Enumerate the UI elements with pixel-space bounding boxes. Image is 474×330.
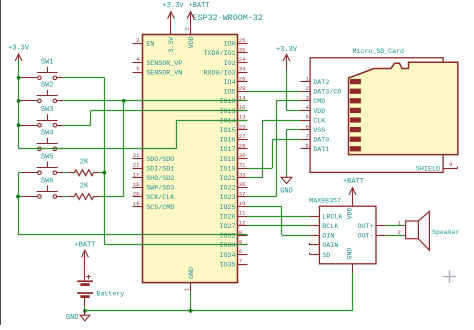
svg-text:CMD: CMD <box>313 98 325 106</box>
battery BT1 <box>77 262 124 307</box>
svg-text:31: 31 <box>239 162 246 169</box>
svg-text:3.3V: 3.3V <box>168 37 176 53</box>
ESP32 right pin 16 IO13 <box>220 104 248 116</box>
svg-text:DAT1: DAT1 <box>313 146 329 154</box>
MAX98357 pin DIN <box>310 233 335 241</box>
SD card drawing <box>349 62 458 154</box>
switch SW3 <box>20 106 63 127</box>
svg-text:IO33: IO33 <box>220 242 236 250</box>
svg-text:SCS/CMD: SCS/CMD <box>146 204 174 212</box>
SD pin 3 CMD <box>301 95 326 107</box>
wire IO5 to DAT3/CD <box>248 91 301 93</box>
svg-text:OUT+: OUT+ <box>357 223 373 231</box>
pin 2 VDD (top) <box>190 25 192 35</box>
junction on rail at SW3 <box>17 123 21 127</box>
svg-text:11: 11 <box>239 210 246 217</box>
svg-text:Micro_SD_Card: Micro_SD_Card <box>353 48 404 55</box>
svg-text:IO26: IO26 <box>220 213 236 221</box>
svg-text:+BATT: +BATT <box>188 2 209 10</box>
svg-text:25: 25 <box>239 37 246 44</box>
wire VDD row <box>287 110 301 112</box>
MAX98357 GND pin <box>352 264 354 274</box>
svg-text:35: 35 <box>239 47 246 54</box>
svg-text:2K: 2K <box>80 183 89 191</box>
svg-text:6: 6 <box>306 123 309 130</box>
svg-text:DAT0: DAT0 <box>313 137 329 145</box>
SD pad 7 <box>350 137 361 142</box>
svg-text:IO27: IO27 <box>220 223 236 231</box>
SD pin 6 VSS <box>301 123 326 135</box>
svg-text:RXD0/IO3: RXD0/IO3 <box>203 69 235 77</box>
svg-text:IO2: IO2 <box>224 60 236 68</box>
ESP32 right pin 31 IO19 <box>220 162 248 174</box>
power symbol +3.3V at SD <box>286 55 288 69</box>
wire IO14 row to pin <box>177 120 248 122</box>
ESP32 right pin 33 IO21 <box>220 171 248 183</box>
wire IO23 row to pin <box>248 196 277 198</box>
svg-text:LRCLK: LRCLK <box>322 213 342 221</box>
svg-text:17: 17 <box>133 171 140 178</box>
svg-text:18: 18 <box>133 181 140 188</box>
svg-text:37: 37 <box>239 191 246 198</box>
wire SW5/SW6 common column <box>18 173 20 235</box>
wire bend down to DIN row <box>281 206 283 235</box>
svg-text:IO22: IO22 <box>220 185 236 193</box>
ESP32 right pin 23 IO15 <box>220 123 248 135</box>
MAX98357 pin SD <box>310 252 331 260</box>
junction on rail at SW2 <box>17 99 21 103</box>
svg-text:20: 20 <box>133 191 140 198</box>
MAX98357 pin OUT- <box>357 233 385 241</box>
wire VSS row <box>287 129 301 131</box>
wire IO19 row to pin <box>248 168 273 170</box>
wire SW5 row stub from column <box>18 172 22 174</box>
ESP32 right pin 11 IO26 <box>220 210 248 222</box>
svg-text:24: 24 <box>239 56 246 63</box>
SD pad 5 <box>350 117 361 122</box>
wire SW4 row (rail corner to inside chip) <box>19 148 177 150</box>
svg-text:GND: GND <box>346 248 354 260</box>
ESP32 left pin 22 SDI/SD1 <box>133 162 175 174</box>
wire DIN row to pin <box>282 235 310 237</box>
wire SW2 row to IO12 pin (across chip) <box>63 100 247 102</box>
svg-text:DAT2: DAT2 <box>313 79 329 87</box>
MAX98357 pin GAIN <box>310 242 339 250</box>
svg-text:SHIELD: SHIELD <box>416 165 440 173</box>
switch SW4 <box>20 130 63 151</box>
SD pin 5 CLK <box>301 114 326 126</box>
svg-text:22: 22 <box>133 162 140 169</box>
svg-text:GAIN: GAIN <box>322 242 338 250</box>
svg-text:28: 28 <box>239 143 246 150</box>
svg-text:7: 7 <box>239 258 242 265</box>
svg-text:5: 5 <box>306 114 309 121</box>
svg-text:29: 29 <box>239 85 246 92</box>
wire R2 row to column <box>99 196 123 198</box>
svg-text:SENSOR_VP: SENSOR_VP <box>146 60 182 68</box>
ESP32 right pin 25 IO0 <box>224 37 248 49</box>
wire CLK row to column <box>263 120 301 122</box>
switch SW5 <box>20 154 63 175</box>
MAX98357 pin LRCLK <box>310 213 343 221</box>
svg-text:IO15: IO15 <box>220 127 236 135</box>
svg-text:36: 36 <box>239 181 246 188</box>
ESP32 left pin 18 SWP/SD3 <box>133 181 175 193</box>
svg-text:2: 2 <box>398 229 401 236</box>
svg-text:IO16: IO16 <box>220 137 236 145</box>
svg-text:SWP/SD3: SWP/SD3 <box>146 185 174 193</box>
svg-text:+3.3V: +3.3V <box>276 46 298 54</box>
svg-text:GND: GND <box>280 188 293 196</box>
switch SW6 <box>20 177 63 198</box>
ESP32 right pin 10 IO25 <box>220 200 248 212</box>
svg-text:CLK: CLK <box>313 117 325 125</box>
SD pad 2 <box>350 89 361 94</box>
svg-text:Battery: Battery <box>97 290 125 297</box>
svg-text:IO4: IO4 <box>224 79 236 87</box>
resistor R2 2K <box>69 183 100 200</box>
svg-text:VDD: VDD <box>188 36 196 48</box>
ESP32 right pin 30 IO18 <box>220 152 248 164</box>
ESP32 right pin 9 IO33 <box>220 239 248 251</box>
ESP32 right pin 28 IO17 <box>220 143 248 155</box>
svg-text:VDD: VDD <box>346 207 354 219</box>
svg-text:2: 2 <box>184 27 191 30</box>
ESP32 left pin 20 SCK/CLK <box>133 191 175 203</box>
wire battery to ground rail <box>84 307 86 311</box>
svg-text:IO35: IO35 <box>220 261 236 269</box>
svg-text:VSS: VSS <box>313 127 325 135</box>
svg-text:SW3: SW3 <box>41 106 54 114</box>
svg-text:VDD: VDD <box>313 108 325 116</box>
svg-text:Speaker: Speaker <box>432 229 460 236</box>
power symbol +BATT at MAX <box>352 188 354 196</box>
ESP32 left pin 4 SENSOR_VP <box>133 56 183 68</box>
ESP32 right pin 29 IO5 <box>224 85 248 97</box>
ESP32 right pin 8 IO32 <box>220 229 248 241</box>
svg-text:10: 10 <box>239 200 246 207</box>
ESP32 module U1 body <box>143 35 238 283</box>
SD pin 8 DAT1 <box>301 143 330 155</box>
ESP32 left pin 21 SDO/SDO <box>133 152 175 164</box>
wire IO21 row to pin <box>248 177 263 179</box>
ground symbol at SD <box>286 175 288 177</box>
svg-text:IO25: IO25 <box>220 204 236 212</box>
wire R1 to junction <box>99 172 104 174</box>
svg-text:BCLK: BCLK <box>322 223 338 231</box>
svg-text:23: 23 <box>239 123 246 130</box>
MAX98357 pin BCLK <box>310 223 339 231</box>
wire column down to R2 row <box>123 101 125 197</box>
svg-text:SW4: SW4 <box>41 130 54 138</box>
speaker LS1 <box>406 211 460 250</box>
wire up inside chip to IO14 row <box>176 120 178 149</box>
ESP32 right pin 13 IO14 <box>220 114 248 126</box>
svg-text:IO14: IO14 <box>220 117 236 125</box>
svg-text:SDI/SD1: SDI/SD1 <box>146 165 174 173</box>
junction ESP32 GND at rail <box>189 309 193 313</box>
svg-text:7: 7 <box>306 133 309 140</box>
svg-text:+BATT: +BATT <box>74 242 95 250</box>
wire +3.3V rail <box>18 60 20 149</box>
svg-text:3: 3 <box>136 37 139 44</box>
ESP32 left pin 5 SENSOR_VN <box>133 66 183 78</box>
svg-text:IO32: IO32 <box>220 233 236 241</box>
junction on rail at SW1 <box>17 76 21 80</box>
svg-text:2K: 2K <box>80 159 89 167</box>
power symbol +BATT at battery <box>84 251 86 262</box>
power symbol +BATT at ESP32 <box>190 12 192 25</box>
svg-text:27: 27 <box>239 133 246 140</box>
svg-text:SDO/SDO: SDO/SDO <box>146 156 174 164</box>
svg-text:DIN: DIN <box>322 233 334 241</box>
wire VSS down to ground <box>286 130 288 176</box>
svg-text:+3.3V: +3.3V <box>8 44 30 52</box>
svg-text:DAT3/CD: DAT3/CD <box>313 89 341 97</box>
wire +3.3V down to VDD <box>286 69 288 110</box>
svg-text:SW2: SW2 <box>41 82 54 90</box>
ESP32 right pin 37 IO23 <box>220 191 248 203</box>
wire IO13 row to pin (across chip) <box>91 110 248 112</box>
svg-text:IO0: IO0 <box>224 41 236 49</box>
MAX98357 pin OUT+ <box>357 223 385 231</box>
svg-text:3: 3 <box>306 95 309 102</box>
resistor R1 2K <box>69 159 100 176</box>
ESP32 right pin 36 IO22 <box>220 181 248 193</box>
SD pin 1 DAT2 <box>301 75 330 87</box>
wire IO25 to bend <box>248 206 282 208</box>
SD pin 9 SHIELD <box>416 161 458 173</box>
wire common column to IO32 (row across chip) <box>18 234 248 236</box>
SD pad 6 <box>350 127 361 132</box>
svg-text:IO13: IO13 <box>220 108 236 116</box>
power symbol +3.3V left <box>18 55 20 60</box>
ESP32 right pin 34 RXD0/IO3 <box>203 66 247 78</box>
wire DAT0 row to column <box>272 139 300 141</box>
power symbol +3.3V at ESP32 <box>170 12 172 25</box>
junction at SW6 on common column <box>16 195 20 199</box>
wire CMD row to column <box>276 100 300 102</box>
svg-text:26: 26 <box>239 75 246 82</box>
wire SW1 column down to IO33 row <box>104 78 106 245</box>
svg-text:SW1: SW1 <box>41 59 54 67</box>
wire CMD column down to IO23 row <box>276 101 278 197</box>
wire SW5 to R1 <box>63 172 68 174</box>
switch SW1 <box>20 59 63 80</box>
svg-text:8: 8 <box>306 143 309 150</box>
wire DAT0 column down to IO19 row <box>272 139 274 168</box>
window edge <box>0 0 2 325</box>
svg-text:19: 19 <box>133 200 140 207</box>
svg-text:OUT-: OUT- <box>357 233 373 241</box>
svg-text:IO17: IO17 <box>220 146 236 154</box>
svg-text:MAX98357: MAX98357 <box>309 197 341 204</box>
svg-text:6: 6 <box>239 248 242 255</box>
cursor crosshair <box>443 276 456 278</box>
svg-text:2: 2 <box>306 85 309 92</box>
svg-text:12: 12 <box>239 219 246 226</box>
junction battery at ground rail <box>83 309 87 313</box>
svg-text:ESP32-WROOM-32: ESP32-WROOM-32 <box>193 13 263 23</box>
ESP32 right pin 26 IO4 <box>224 75 248 87</box>
ESP32 left pin 17 SHD/SD2 <box>133 171 175 183</box>
SD pad 3 <box>350 98 361 103</box>
ground symbol at battery <box>84 311 86 315</box>
wire SW6 row stub from column <box>18 196 22 198</box>
ESP32 right pin 6 IO34 <box>220 248 248 260</box>
svg-text:+3.3V: +3.3V <box>162 2 184 10</box>
svg-text:EN: EN <box>146 41 154 49</box>
pin 3V3 (top) <box>170 25 172 35</box>
MAX98357 VDD pin to +BATT <box>352 196 354 206</box>
SD pad 4 <box>350 108 361 113</box>
wire IO27 to BCLK <box>248 225 310 227</box>
wire SW3 bend up to IO13 row <box>90 110 92 125</box>
svg-text:IO23: IO23 <box>220 194 236 202</box>
ESP32 left pin 19 SCS/CMD <box>133 200 175 212</box>
SD pin 4 VDD <box>301 104 326 116</box>
svg-text:IO5: IO5 <box>224 89 236 97</box>
ground rail wire <box>85 310 353 312</box>
svg-text:TXD0/IO1: TXD0/IO1 <box>203 50 235 58</box>
wire MAX GND to rail <box>352 273 354 311</box>
svg-text:9: 9 <box>449 161 452 168</box>
wire SW6 to R2 <box>63 196 68 198</box>
svg-text:SW5: SW5 <box>41 154 54 162</box>
SD pad 1 <box>350 79 361 84</box>
ESP32 right pin 27 IO16 <box>220 133 248 145</box>
wire OUT+ to speaker pin 1 <box>386 225 406 227</box>
pin 1 GND (bottom) <box>190 283 192 293</box>
svg-text:IO34: IO34 <box>220 252 236 260</box>
svg-text:IO12: IO12 <box>220 98 236 106</box>
SD pin 2 DAT3/CD <box>301 85 342 97</box>
SD pad 8 <box>350 146 361 151</box>
svg-text:SCK/CLK: SCK/CLK <box>146 194 174 202</box>
junction SW2 row to R2 column <box>122 99 126 103</box>
ESP32 right pin 14 IO12 <box>220 95 248 107</box>
wire IO26 to LRCLK <box>248 216 310 218</box>
svg-text:SW6: SW6 <box>41 177 54 185</box>
wire OUT- to speaker pin 2 <box>386 235 406 237</box>
ESP32 right pin 7 IO35 <box>220 258 248 270</box>
ESP32 left pin 3 EN <box>133 37 155 49</box>
svg-text:+BATT: +BATT <box>343 178 364 186</box>
svg-text:34: 34 <box>239 66 246 73</box>
wire ESP32 GND pin to rail <box>190 292 192 311</box>
wire IO33 row to pin <box>104 244 247 246</box>
junction R1 right at SW1 column <box>103 171 107 175</box>
svg-text:SD: SD <box>322 252 330 260</box>
svg-text:SHD/SD2: SHD/SD2 <box>146 175 174 183</box>
MAX98357 U2 body <box>319 206 376 264</box>
ESP32 right pin 35 TXD0/IO1 <box>203 47 247 59</box>
ESP32 right pin 12 IO27 <box>220 219 248 231</box>
svg-text:GND: GND <box>66 314 79 322</box>
svg-text:GND: GND <box>188 267 196 279</box>
wire SW1 to column <box>63 77 104 79</box>
svg-text:IO18: IO18 <box>220 156 236 164</box>
wire SW3 to bend <box>63 125 90 127</box>
svg-text:IO21: IO21 <box>220 175 236 183</box>
svg-text:SENSOR_VN: SENSOR_VN <box>146 69 182 77</box>
svg-text:5: 5 <box>136 66 139 73</box>
svg-text:13: 13 <box>239 114 246 121</box>
svg-text:30: 30 <box>239 152 246 159</box>
SD pin 7 DAT0 <box>301 133 330 145</box>
Micro_SD_Card J1 body <box>310 58 443 173</box>
svg-text:IO19: IO19 <box>220 165 236 173</box>
svg-text:21: 21 <box>133 152 140 159</box>
svg-text:33: 33 <box>239 171 246 178</box>
ESP32 right pin 24 IO2 <box>224 56 248 68</box>
wire CLK column down to IO21 row <box>262 120 264 178</box>
switch SW2 <box>20 82 63 103</box>
